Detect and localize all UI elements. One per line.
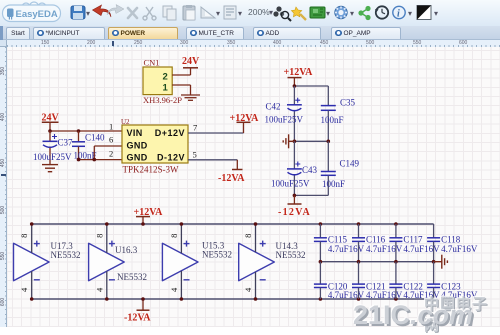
DC-DC module U2 bbox=[121, 118, 188, 175]
net flag +12VA at rail bbox=[134, 207, 164, 224]
svg-text:▾: ▾ bbox=[269, 8, 273, 17]
svg-text:100nF: 100nF bbox=[322, 179, 345, 189]
svg-text:4.7uF16V: 4.7uF16V bbox=[366, 244, 403, 254]
copy icon bbox=[163, 6, 176, 20]
setsquare icon bbox=[201, 7, 215, 18]
connector CN1 bbox=[143, 58, 182, 105]
delete icon bbox=[128, 8, 137, 18]
svg-text:6: 6 bbox=[109, 135, 113, 145]
net flag 24V at CN1 bbox=[182, 56, 200, 75]
doc list icon bbox=[224, 6, 236, 19]
svg-text:1: 1 bbox=[109, 122, 113, 132]
capacitor C42 bbox=[265, 86, 304, 141]
svg-text:C117: C117 bbox=[403, 234, 423, 244]
junction bbox=[48, 129, 52, 133]
wire mid cap rail bbox=[320, 261, 433, 263]
svg-text:8: 8 bbox=[169, 234, 179, 238]
svg-text:1: 1 bbox=[163, 83, 169, 94]
svg-text:i: i bbox=[397, 9, 400, 20]
junction bbox=[327, 140, 331, 144]
svg-text:5: 5 bbox=[193, 150, 197, 160]
svg-text:-12VA: -12VA bbox=[278, 207, 311, 218]
wire bottom C43-C149 bbox=[294, 194, 328, 196]
capacitor C35 bbox=[321, 86, 356, 141]
svg-text:▾: ▾ bbox=[216, 9, 220, 18]
undo icon bbox=[93, 5, 112, 17]
vertical ruler bbox=[0, 47, 7, 327]
net flag +12VA at C42 bbox=[284, 67, 314, 86]
svg-text:4: 4 bbox=[169, 287, 179, 292]
svg-text:8: 8 bbox=[243, 234, 253, 238]
wand icon bbox=[291, 7, 306, 20]
svg-text:CN1: CN1 bbox=[144, 58, 160, 68]
document tab bar bbox=[0, 26, 500, 40]
svg-text:4: 4 bbox=[243, 287, 253, 292]
svg-text:2: 2 bbox=[109, 149, 113, 159]
svg-text:EasyEDA: EasyEDA bbox=[16, 9, 58, 20]
capacitor C140 bbox=[72, 131, 105, 161]
svg-text:4: 4 bbox=[94, 287, 104, 292]
op-amp U14.3 bbox=[239, 224, 306, 299]
wire pin7 to +12VA bbox=[188, 132, 244, 134]
junction bbox=[93, 158, 97, 162]
svg-text:C118: C118 bbox=[441, 234, 461, 244]
wire mid C42-C35 bbox=[294, 140, 328, 142]
ground at mid cap rail bbox=[434, 255, 448, 269]
svg-text:8: 8 bbox=[19, 234, 29, 238]
wire -12VA rail bbox=[32, 298, 434, 300]
svg-text:TPK2412S-3W: TPK2412S-3W bbox=[123, 165, 180, 175]
watermark 中国电子网 bbox=[424, 293, 500, 335]
svg-text:▾: ▾ bbox=[434, 9, 438, 18]
CN1 pin 2 bbox=[163, 72, 191, 83]
capacitor C122 bbox=[389, 262, 440, 300]
svg-text:C42: C42 bbox=[266, 102, 281, 112]
op-amp U16.3 bbox=[89, 224, 147, 299]
svg-text:24V: 24V bbox=[182, 56, 200, 67]
net flag -12VA at C43 bbox=[278, 195, 311, 217]
svg-text:D+12V: D+12V bbox=[155, 128, 185, 138]
capacitor C117 bbox=[389, 224, 440, 262]
junction bbox=[293, 84, 297, 88]
share icon bbox=[358, 6, 370, 20]
junction bbox=[77, 129, 81, 133]
svg-text:100uF25V: 100uF25V bbox=[265, 114, 304, 124]
capacitor C43 bbox=[271, 141, 318, 195]
wire pin5 to -12VA bbox=[188, 159, 237, 161]
net flag 24V at C37 bbox=[42, 112, 60, 131]
svg-text:100nF: 100nF bbox=[321, 115, 344, 125]
svg-text:XH3.96-2P: XH3.96-2P bbox=[143, 95, 182, 105]
op-amp U17.3 bbox=[14, 224, 81, 299]
capacitor C149 bbox=[321, 141, 360, 195]
EasyEDA logo bbox=[3, 2, 61, 22]
junction bbox=[293, 194, 297, 198]
capacitor C118 bbox=[427, 224, 478, 262]
svg-text:C37: C37 bbox=[58, 137, 74, 147]
svg-text:C149: C149 bbox=[340, 158, 360, 168]
svg-text:GND: GND bbox=[127, 140, 148, 150]
wire top C42-C35 bbox=[294, 85, 328, 87]
junction dots top rail bbox=[30, 222, 398, 226]
CN1 pin 1 bbox=[163, 83, 191, 94]
junction bbox=[77, 158, 81, 162]
svg-text:U16.3: U16.3 bbox=[115, 245, 138, 255]
svg-text:▾: ▾ bbox=[350, 9, 354, 18]
svg-text:2: 2 bbox=[163, 72, 168, 83]
svg-text:-12VA: -12VA bbox=[124, 312, 151, 323]
svg-text:200%: 200% bbox=[248, 7, 270, 17]
junction dots mid rail bbox=[319, 260, 436, 264]
svg-text:NE5532: NE5532 bbox=[276, 250, 306, 260]
ground at CN1 bbox=[181, 85, 200, 100]
svg-text:▾: ▾ bbox=[238, 9, 242, 18]
svg-text:-12VA: -12VA bbox=[218, 173, 245, 184]
svg-text:▾: ▾ bbox=[408, 9, 412, 18]
svg-text:NE5532: NE5532 bbox=[51, 250, 81, 260]
info icon bbox=[393, 6, 405, 19]
svg-text:▾: ▾ bbox=[326, 9, 330, 18]
ground at mid rail left bbox=[283, 134, 294, 148]
watermark 21IC.com bbox=[353, 300, 473, 331]
svg-text:C140: C140 bbox=[85, 133, 105, 143]
capacitor C116 bbox=[352, 224, 403, 262]
parts search icon bbox=[273, 6, 291, 21]
theme icon bbox=[417, 6, 431, 20]
net flag +12VA at U2 bbox=[230, 113, 260, 133]
top toolbar bbox=[0, 0, 500, 27]
paste icon bbox=[183, 5, 195, 20]
svg-text:GND: GND bbox=[127, 152, 148, 162]
svg-text:+12VA: +12VA bbox=[230, 113, 260, 124]
svg-text:7: 7 bbox=[193, 123, 197, 133]
svg-text:4.7uF16V: 4.7uF16V bbox=[366, 290, 403, 300]
net flag -12VA at U2 bbox=[218, 160, 245, 184]
capacitor C120 bbox=[314, 262, 365, 300]
svg-text:8: 8 bbox=[94, 234, 104, 238]
ground under C37 bbox=[42, 165, 58, 172]
svg-text:C43: C43 bbox=[302, 165, 318, 175]
capacitor C121 bbox=[352, 262, 403, 300]
svg-text:4: 4 bbox=[19, 287, 29, 292]
svg-text:D-12V: D-12V bbox=[157, 152, 185, 162]
save icon bbox=[71, 6, 85, 19]
wire pin6 L bbox=[94, 146, 122, 160]
net flag -12VA at rail bbox=[124, 299, 151, 323]
svg-text:+12VA: +12VA bbox=[284, 67, 314, 78]
horizontal ruler bbox=[7, 40, 500, 48]
svg-text:NE5532: NE5532 bbox=[117, 272, 147, 282]
svg-text:U2: U2 bbox=[121, 118, 130, 126]
pcb icon bbox=[310, 7, 325, 18]
capacitor C115 bbox=[314, 224, 365, 262]
wire +12VA rail bbox=[32, 223, 434, 225]
redo icon bbox=[107, 5, 124, 16]
svg-text:4.7uF16V: 4.7uF16V bbox=[403, 244, 440, 254]
gear icon bbox=[335, 6, 347, 18]
svg-text:C115: C115 bbox=[328, 234, 348, 244]
svg-text:C35: C35 bbox=[340, 98, 356, 108]
wire GND to pin2 bbox=[79, 159, 123, 161]
junction bbox=[293, 140, 297, 144]
capacitor C123 bbox=[427, 262, 478, 300]
capacitor C37 bbox=[33, 131, 73, 164]
cut icon bbox=[143, 7, 156, 20]
op-amp U15.3 bbox=[162, 224, 232, 299]
junction dots bottom rail bbox=[30, 297, 398, 301]
svg-text:▾: ▾ bbox=[86, 9, 90, 18]
wire 24V horizontal bbox=[50, 130, 122, 132]
svg-text:NE5532: NE5532 bbox=[202, 250, 232, 260]
svg-text:C116: C116 bbox=[366, 234, 386, 244]
svg-text:4.7uF16V: 4.7uF16V bbox=[441, 244, 478, 254]
svg-text:100uF25V: 100uF25V bbox=[271, 178, 310, 188]
svg-text:VIN: VIN bbox=[127, 128, 143, 138]
svg-text:100uF25V: 100uF25V bbox=[33, 152, 72, 162]
history clock icon bbox=[375, 6, 388, 18]
